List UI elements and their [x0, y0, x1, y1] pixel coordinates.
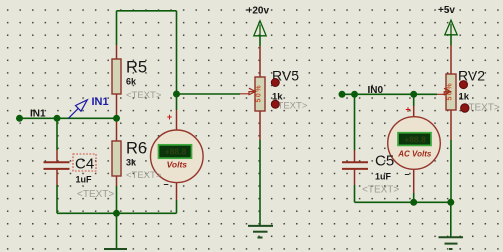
- wire meter1 bottom link: [176, 200, 178, 213]
- resistor R5: [112, 59, 121, 94]
- junction node C4 tap: [54, 115, 61, 122]
- junction node AC meter bottom: [410, 199, 417, 206]
- wire +5v stem: [450, 34, 452, 45]
- pin C5 top: [354, 150, 356, 162]
- wire bottom rail right: [355, 201, 451, 203]
- pin RV2 bottom: [450, 110, 452, 140]
- svg-text:+88.8: +88.8: [165, 147, 187, 157]
- ground right: [439, 237, 464, 249]
- svg-text:50%: 50%: [256, 84, 263, 103]
- pointer arrow blue: [68, 100, 87, 119]
- junction node IN1 left end: [16, 115, 23, 122]
- pin RV2 top: [450, 45, 452, 74]
- ground middle: [248, 226, 273, 238]
- wire meter1 top link: [176, 94, 178, 110]
- wire top rail (R5 top to meter branch): [117, 10, 177, 12]
- capacitor C5: [342, 162, 368, 169]
- svg-text:AC Volts: AC Volts: [397, 150, 432, 159]
- wire C4 lower: [56, 185, 58, 213]
- svg-text:<TEXT>: <TEXT>: [77, 189, 114, 200]
- svg-text:IN1: IN1: [92, 96, 109, 108]
- svg-text:1uF: 1uF: [76, 174, 93, 184]
- power terminal +5v: [445, 20, 457, 35]
- potentiometer RV5 body: [255, 77, 265, 111]
- svg-text:−: −: [404, 170, 409, 180]
- wire IN0 rail: [342, 93, 437, 95]
- wire AC meter bottom link: [413, 193, 415, 202]
- AC voltmeter body: [388, 117, 441, 170]
- power terminal +20v: [254, 21, 266, 36]
- svg-text:<TEXT>: <TEXT>: [126, 90, 162, 101]
- pin dot RV5 upper: [271, 79, 279, 87]
- svg-text:+: +: [167, 112, 172, 122]
- wiper arrow RV2: [437, 88, 451, 95]
- pin RV5 top: [259, 46, 261, 77]
- svg-text:+: +: [405, 105, 410, 115]
- resistor R6: [112, 141, 121, 176]
- svg-text:R5: R5: [126, 59, 147, 77]
- wire +20v stem: [259, 35, 261, 46]
- junction node IN0 left end: [339, 91, 346, 98]
- svg-text:3k: 3k: [126, 158, 137, 168]
- pin dot RV5 lower: [271, 100, 279, 108]
- wire RV2 bottom green: [450, 140, 452, 202]
- pin meter1 bottom: [176, 183, 178, 200]
- svg-text:6k: 6k: [126, 77, 137, 87]
- junction node meter1 top: [173, 91, 180, 98]
- svg-text:C5: C5: [375, 152, 394, 169]
- wire R6 bottom link: [116, 186, 118, 213]
- svg-text:IN0: IN0: [368, 85, 384, 96]
- svg-text:C4: C4: [75, 155, 94, 172]
- ground left: [104, 248, 127, 250]
- pin R5 top: [116, 45, 118, 59]
- wire ground drop right: [450, 202, 452, 237]
- pin AC meter bottom: [413, 170, 415, 193]
- wire AC meter top link: [413, 94, 415, 106]
- svg-text:−: −: [163, 180, 168, 190]
- svg-text:Volts: Volts: [167, 160, 188, 170]
- wire IN1 rail: [20, 117, 117, 119]
- wire C4 upper: [56, 118, 58, 150]
- pin C4 top: [56, 150, 58, 162]
- pin R6 bottom: [116, 176, 118, 186]
- pin RV5 bottom: [259, 111, 261, 140]
- potentiometer RV2 body: [446, 74, 456, 110]
- svg-text:<TEXT>: <TEXT>: [362, 185, 399, 196]
- wire left drop to R5: [116, 11, 118, 45]
- wire ground drop left: [116, 213, 118, 248]
- capacitor C4: [44, 162, 70, 169]
- svg-text:+20v: +20v: [247, 6, 270, 17]
- pin C4 bottom: [56, 169, 58, 185]
- wire bottom rail left: [57, 212, 177, 214]
- junction node AC meter top: [410, 91, 417, 98]
- junction node RV2 ground: [447, 199, 454, 206]
- wire RV5 bottom green: [259, 140, 261, 226]
- label C4 selection box: [73, 154, 96, 171]
- pin dot RV2 upper: [460, 81, 468, 89]
- svg-text:+88.8: +88.8: [404, 134, 426, 144]
- svg-text:R6: R6: [126, 140, 147, 158]
- pin AC meter top: [413, 106, 415, 117]
- voltmeter U-volts body: [151, 130, 204, 183]
- wire right drop to node: [176, 11, 178, 94]
- wiper arrow RV5: [240, 88, 255, 95]
- svg-text:1k: 1k: [459, 92, 470, 103]
- pin dot RV2 lower: [461, 104, 469, 112]
- pin R5 bottom / R6 top: [116, 94, 118, 141]
- junction node bottom rail left: [113, 210, 120, 217]
- wire C5 lower: [354, 185, 356, 202]
- junction node R5/R6/IN1: [113, 115, 120, 122]
- pin meter1 top: [176, 110, 178, 130]
- junction node C5 tap: [351, 91, 358, 98]
- svg-text:1uF: 1uF: [375, 171, 392, 181]
- svg-text:IN1: IN1: [30, 109, 46, 120]
- wire node to RV5 wiper: [177, 93, 241, 95]
- wire C5 upper: [354, 94, 356, 150]
- pin C5 bottom: [354, 169, 356, 185]
- svg-text:+5v: +5v: [438, 5, 455, 16]
- svg-text:<TEXT>: <TEXT>: [126, 170, 162, 181]
